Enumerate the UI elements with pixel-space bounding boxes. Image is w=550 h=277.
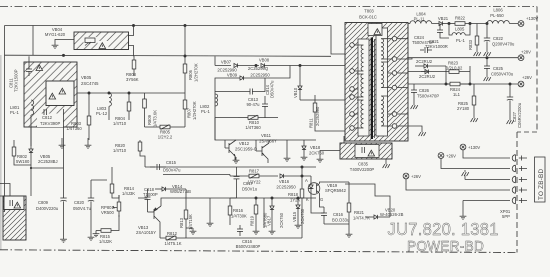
svg-text:C812: C812 — [42, 115, 53, 120]
ground c827 — [507, 118, 514, 124]
transistor VB13 — [148, 206, 162, 238]
resistor R824 — [446, 82, 470, 86]
svg-text:+28V: +28V — [521, 50, 531, 55]
inductor L803 — [109, 93, 111, 120]
node j1305b — [469, 22, 471, 24]
capacitor C811 — [26, 56, 32, 76]
warning triangle C835 — [368, 150, 375, 156]
terminal +26V mid — [403, 173, 409, 179]
ground r821 — [346, 231, 353, 237]
svg-text:1/2H270K: 1/2H270K — [194, 63, 199, 82]
svg-text:C050V470u: C050V470u — [491, 72, 514, 77]
posistor VB04 hatched block — [74, 32, 129, 50]
capacitor C816 — [321, 210, 327, 224]
svg-text:+26V: +26V — [411, 174, 421, 179]
resistor R810 — [238, 115, 278, 120]
capacitor C820 — [88, 180, 107, 234]
capacitor C814 — [262, 96, 268, 118]
resistor R815 — [96, 215, 119, 232]
node j93 — [88, 92, 90, 94]
node jr824a — [445, 83, 447, 85]
svg-text:3Y56K: 3Y56K — [126, 77, 139, 82]
svg-text:2C2RU2: 2C2RU2 — [419, 74, 436, 79]
wire c817 r816 join — [230, 197, 237, 199]
svg-text:2C252990: 2C252990 — [315, 106, 320, 126]
wire bus198 — [230, 197, 316, 199]
wire opto k down — [311, 196, 324, 213]
ground c835 right — [383, 162, 390, 168]
primary winding lower — [355, 100, 364, 128]
svg-text:W05/Z7.5B: W05/Z7.5B — [170, 189, 191, 194]
node jvb10 — [299, 64, 301, 66]
diode VB09 — [228, 66, 290, 81]
capacitor C835 hatched block — [340, 143, 392, 159]
svg-text:2CK750: 2CK750 — [279, 212, 284, 228]
inductor L802 — [215, 94, 218, 106]
pin 9 — [350, 43, 355, 48]
pin 8 — [350, 69, 355, 74]
optocoupler VB19 — [308, 176, 320, 196]
svg-text:1/2H270K: 1/2H270K — [192, 101, 197, 120]
page border dashed right lower — [516, 132, 518, 253]
svg-text:2SA966Y: 2SA966Y — [259, 139, 277, 144]
warning triangle block — [14, 202, 21, 208]
ground VB12 emitter — [233, 157, 240, 163]
svg-text:C822: C822 — [493, 36, 504, 41]
svg-text:VB09: VB09 — [227, 73, 238, 78]
svg-text:PL-12: PL-12 — [96, 111, 108, 116]
pin 7 — [350, 87, 355, 92]
svg-text:1/4T360: 1/4T360 — [66, 126, 82, 131]
svg-text:T400V2200P: T400V2200P — [350, 167, 375, 172]
diode VB06 (vertical) — [29, 127, 33, 196]
svg-text:2SC1959-O: 2SC1959-O — [235, 147, 258, 152]
potentiometer RP801 — [113, 195, 121, 215]
wire vb13 emitter up — [161, 198, 230, 206]
svg-text:C825: C825 — [493, 66, 504, 71]
svg-text:VB16: VB16 — [279, 179, 290, 184]
pin 1 — [392, 57, 397, 62]
left edge box — [0, 184, 10, 197]
wire collector bus — [215, 118, 316, 144]
resistor R818 — [300, 167, 304, 238]
wire r811 top to xfmr — [315, 99, 345, 101]
wire c818 top — [138, 189, 148, 198]
transformer core — [371, 38, 373, 140]
resistor R811 — [300, 95, 345, 131]
svg-text:R817: R817 — [249, 169, 260, 174]
svg-text:2C252950: 2C252950 — [250, 73, 270, 78]
svg-text:T1000P: T1000P — [143, 192, 158, 197]
svg-text:B500V2480P: B500V2480P — [236, 244, 261, 249]
svg-text:A: A — [305, 178, 308, 183]
resistor R805 — [145, 125, 186, 130]
diode VB14 — [155, 187, 186, 206]
ground vb15 — [295, 222, 302, 228]
node j176 — [301, 175, 303, 177]
svg-text:POWER-BD: POWER-BD — [407, 239, 484, 256]
connector XP01 pin4 — [512, 187, 527, 194]
svg-text:+26V: +26V — [522, 75, 532, 80]
primary winding upper — [355, 45, 364, 71]
capacitor C827 — [507, 84, 513, 118]
wire xfmr right outputs — [397, 24, 412, 133]
ground r813 — [190, 228, 197, 234]
capacitor C813 — [215, 78, 265, 95]
svg-text:1/4T360: 1/4T360 — [245, 125, 261, 130]
hot area hatched block bottom-left — [3, 196, 26, 240]
wire bus174 — [163, 174, 230, 176]
svg-text:VB10: VB10 — [293, 87, 298, 98]
svg-text:T2KV390P: T2KV390P — [40, 121, 60, 126]
svg-text:1/4T15K: 1/4T15K — [188, 214, 193, 230]
diode VB16 — [280, 174, 311, 178]
svg-text:2C252950: 2C252950 — [276, 185, 296, 190]
wire left enclosure edge — [4, 26, 6, 213]
svg-text:L805: L805 — [455, 27, 465, 32]
transformer warning triangle — [374, 29, 381, 35]
primary winding mid — [355, 74, 364, 97]
wire r810 left drop — [215, 92, 238, 141]
secondary winding mid — [381, 62, 392, 88]
capacitor C815 — [150, 164, 166, 170]
svg-text:VB11: VB11 — [261, 133, 272, 138]
diode VB21 — [439, 21, 449, 25]
capacitor C825 — [484, 58, 490, 75]
wire r817 left — [229, 175, 231, 177]
wire bus167 — [145, 166, 316, 168]
svg-text:+130V: +130V — [468, 145, 480, 150]
wire pin5 — [463, 201, 510, 214]
resistor R804 — [127, 93, 131, 120]
wire term26 mid — [406, 179, 510, 190]
wire r812 right — [185, 228, 187, 238]
ground zoneC b — [85, 142, 92, 148]
svg-text:C06RV2200u: C06RV2200u — [517, 102, 522, 128]
svg-text:1/4T10: 1/4T10 — [113, 148, 127, 153]
svg-text:D50V47u: D50V47u — [163, 168, 181, 173]
transistor VB11 — [256, 140, 269, 163]
svg-text:C817: C817 — [243, 181, 254, 186]
connector XP01 pin5 — [512, 197, 527, 204]
node jc825 — [486, 57, 488, 59]
svg-text:2CK750: 2CK750 — [309, 151, 325, 156]
svg-text:T2KV1500P: T2KV1500P — [14, 69, 19, 92]
ground c826 — [411, 103, 418, 109]
node j198 — [255, 197, 257, 199]
svg-text:1/2L0.82: 1/2L0.82 — [446, 66, 463, 71]
warning triangle inner2 — [59, 88, 66, 94]
svg-text:R809: R809 — [147, 114, 152, 125]
svg-text:BO.D33u: BO.D33u — [332, 218, 350, 223]
wire xfmr top right — [408, 23, 410, 25]
wire vb09 left — [215, 78, 228, 92]
svg-text:+26V: +26V — [446, 154, 456, 159]
wire VB05 collector — [77, 92, 185, 94]
diode VB20 — [365, 215, 390, 219]
resistor R803 — [87, 93, 91, 140]
pin 2 — [392, 85, 397, 90]
svg-text:D50V47u: D50V47u — [270, 80, 275, 98]
svg-text:R821: R821 — [354, 210, 365, 215]
secondary winding lower — [381, 96, 392, 126]
svg-text:BCK-01C: BCK-01C — [359, 15, 377, 20]
terminal +130V conn — [460, 144, 466, 150]
resistor R823 — [408, 66, 470, 84]
svg-text:D50V1u: D50V1u — [242, 187, 258, 192]
connector XP01 pin2 — [512, 165, 527, 172]
terminal +26V conn — [438, 153, 444, 159]
resistor R814 — [110, 170, 119, 198]
svg-text:VB18: VB18 — [310, 145, 321, 150]
svg-text:R818: R818 — [288, 192, 299, 197]
capacitor C818 — [145, 193, 151, 212]
svg-text:T500V470P: T500V470P — [417, 94, 439, 99]
capacitor C821 — [437, 24, 449, 39]
svg-text:T500V470P: T500V470P — [412, 40, 434, 45]
svg-text:R833: R833 — [468, 39, 473, 50]
svg-text:90-47u: 90-47u — [246, 102, 260, 107]
wire c835 left ground — [320, 136, 344, 156]
svg-text:MYG1-620: MYG1-620 — [45, 32, 66, 37]
svg-text:PL-1: PL-1 — [201, 109, 211, 114]
svg-text:D400V220u: D400V220u — [36, 206, 59, 211]
svg-text:G: G — [320, 197, 323, 202]
svg-text:VB15: VB15 — [292, 211, 297, 222]
svg-text:1/4J2K: 1/4J2K — [99, 239, 112, 244]
svg-text:PL-550: PL-550 — [490, 13, 504, 18]
pin 5 — [350, 112, 355, 117]
resistor R821 — [347, 196, 351, 224]
resistor R813 — [184, 206, 188, 228]
resistor R806 — [183, 26, 187, 99]
svg-text:2C2528BJ: 2C2528BJ — [38, 159, 58, 164]
svg-text:TO ZB-BD: TO ZB-BD — [538, 169, 545, 200]
ground c835 — [317, 156, 324, 162]
svg-text:1/4J3K: 1/4J3K — [122, 191, 135, 196]
svg-text:R813: R813 — [179, 217, 184, 228]
svg-text:VB21: VB21 — [438, 16, 449, 21]
wire term130 conn — [463, 150, 510, 158]
node j655 — [255, 64, 257, 66]
resistor R812 — [160, 236, 186, 241]
svg-text:W-40526-2B: W-40526-2B — [380, 212, 404, 217]
svg-text:C820: C820 — [74, 200, 85, 205]
page border dashed right upper — [536, 7, 538, 133]
hot area hatched block VB05 — [24, 62, 77, 127]
resistor R825 — [472, 84, 476, 116]
wire mid vertical — [215, 56, 231, 65]
connector XP01 pin1 — [512, 155, 527, 162]
svg-text:2C25299Q: 2C25299Q — [248, 66, 269, 71]
node jr824b — [469, 83, 471, 85]
ground c822 — [484, 50, 491, 56]
resistor R822 — [449, 22, 487, 26]
wire pin3 gnd — [465, 176, 510, 180]
svg-text:R822: R822 — [455, 16, 466, 21]
ground pin5 — [460, 213, 467, 219]
wire +26V rail — [408, 83, 518, 85]
ground zoneC a — [59, 142, 66, 148]
ground cluster a — [253, 228, 260, 234]
ground xfmr right — [419, 130, 426, 136]
wire pin stubs — [355, 73, 393, 114]
pin 5b — [350, 126, 355, 131]
ground r815 — [93, 231, 100, 237]
svg-text:1L1: 1L1 — [453, 92, 461, 97]
svg-text:1/4T5.1K: 1/4T5.1K — [165, 241, 182, 246]
svg-text:R816: R816 — [233, 208, 244, 213]
pin 4 — [392, 36, 397, 41]
pin 6 — [350, 95, 355, 100]
resistor R816 — [228, 198, 232, 225]
svg-text:050V4.7u: 050V4.7u — [73, 206, 92, 211]
node junction bus2 b — [184, 55, 186, 57]
ground cluster b — [269, 228, 276, 234]
ground pin3 — [462, 170, 469, 176]
vertical resistor R819 — [254, 198, 258, 228]
wire zone H right — [324, 184, 390, 231]
svg-text:VB08: VB08 — [259, 58, 270, 63]
svg-text:VB12: VB12 — [239, 141, 250, 146]
inductor L801 — [31, 100, 34, 146]
svg-text:PL-11: PL-11 — [414, 17, 426, 22]
svg-text:R819: R819 — [250, 215, 255, 226]
capacitor C824 — [420, 47, 432, 53]
ground mid — [284, 155, 291, 161]
capacitor in block — [10, 200, 12, 206]
diode VB15 (vertical) — [296, 198, 300, 222]
node junction bus1 — [132, 24, 134, 26]
node jc822 — [486, 22, 488, 24]
svg-text:C835: C835 — [358, 162, 369, 167]
resistor R807 — [183, 98, 187, 127]
opto emitter wires — [320, 182, 350, 207]
ground VB04 — [52, 42, 59, 48]
svg-text:1/4T4.7K: 1/4T4.7K — [353, 216, 370, 221]
wire VB04 left lead — [55, 40, 74, 43]
svg-text:2SA1015Y: 2SA1015Y — [136, 230, 156, 235]
transistor VB12 — [225, 140, 236, 160]
inductor L806 — [487, 20, 518, 23]
capacitor C817 — [234, 167, 240, 198]
svg-text:PL-1: PL-1 — [10, 110, 20, 115]
svg-text:VB07: VB07 — [221, 60, 232, 65]
wire term26 conn — [441, 159, 510, 169]
wire vb18 vertical — [303, 140, 305, 146]
node j1305a — [448, 22, 450, 24]
resistor R802 — [12, 140, 31, 165]
wire VB04 lower lead — [129, 46, 134, 57]
wire main top bus — [5, 26, 346, 55]
pin 3 — [392, 71, 397, 76]
node jc827 — [509, 83, 511, 85]
capacitor C835 symbol — [362, 147, 364, 153]
page border dashed top — [0, 6, 537, 8]
svg-text:R807: R807 — [187, 107, 192, 118]
terminal +28V — [518, 55, 524, 61]
warning triangle inner1 — [49, 93, 56, 99]
diode VB22 — [415, 64, 446, 68]
diode VB10 (vertical) — [298, 66, 302, 101]
resistor R808 — [132, 56, 136, 76]
ground bottom mid — [207, 220, 214, 226]
vertical wire cluster — [263, 198, 265, 228]
TO ZB-BD box — [535, 157, 546, 202]
node junction bus1 b — [184, 24, 186, 26]
inductor L805 parallel — [449, 24, 470, 36]
node junction bus2 — [62, 54, 64, 56]
svg-text:Q200V470u: Q200V470u — [492, 42, 515, 47]
warning triangle upper — [36, 65, 43, 71]
svg-text:R811: R811 — [309, 118, 314, 128]
page border dashed jog — [517, 131, 537, 133]
diode VB23 — [421, 70, 429, 74]
svg-text:L806: L806 — [493, 8, 503, 13]
wire r812 to right — [186, 237, 302, 239]
transformer T803 body — [345, 23, 408, 142]
resistor R833 — [475, 24, 479, 51]
capacitor C822 — [484, 24, 490, 51]
resistor R817 — [230, 174, 278, 179]
wire +28V rail — [408, 57, 518, 59]
capacitor C826 — [411, 84, 417, 103]
capacitor C828 — [237, 225, 243, 236]
node j167a — [301, 166, 303, 168]
svg-text:PL-1: PL-1 — [456, 38, 466, 43]
ground c825 — [484, 75, 491, 81]
terminal +130V — [518, 21, 524, 27]
svg-text:1/4T30K: 1/4T30K — [231, 214, 247, 219]
ground r833 — [474, 50, 481, 56]
svg-text:5PP: 5PP — [502, 214, 510, 219]
secondary winding upper — [381, 39, 392, 59]
ground r825 — [471, 116, 478, 122]
svg-text:T803: T803 — [364, 9, 374, 14]
diode VB18 (vertical) — [302, 146, 306, 154]
svg-text:2C2RU2: 2C2RU2 — [416, 59, 433, 64]
connector XP01 pin3 — [512, 176, 527, 183]
svg-text:C826: C826 — [419, 88, 430, 93]
resistor R809 — [143, 93, 147, 127]
svg-text:1/4T10: 1/4T10 — [113, 121, 127, 126]
pin 11 — [392, 112, 397, 117]
svg-text:JU7.820. 1381: JU7.820. 1381 — [388, 219, 499, 240]
svg-text:5W180: 5W180 — [16, 159, 30, 164]
ground vb18 — [301, 154, 308, 160]
pin 10 — [392, 124, 397, 129]
svg-text:C816: C816 — [333, 212, 344, 217]
diode VB08 — [261, 63, 345, 67]
wire VB04 right lead — [129, 26, 134, 36]
inductor L804 — [410, 21, 439, 24]
page border dashed bottom — [0, 250, 517, 253]
diode VB17 (vertical) — [270, 198, 274, 228]
svg-text:R812: R812 — [167, 231, 178, 236]
svg-text:2CK750: 2CK750 — [300, 208, 305, 224]
svg-text:C815: C815 — [166, 160, 177, 165]
svg-text:R806: R806 — [188, 69, 193, 80]
svg-text:2SC4745: 2SC4745 — [81, 81, 99, 86]
diode VB07 — [234, 63, 259, 67]
capacitor C809 — [30, 109, 67, 236]
svg-text:1/4T3.6K: 1/4T3.6K — [153, 110, 158, 127]
svg-text:+130V: +130V — [526, 16, 538, 21]
svg-text:C809: C809 — [38, 200, 49, 205]
terminal +26V — [518, 81, 524, 87]
svg-text:2Y180: 2Y180 — [457, 106, 470, 111]
wire second bus — [5, 26, 332, 57]
